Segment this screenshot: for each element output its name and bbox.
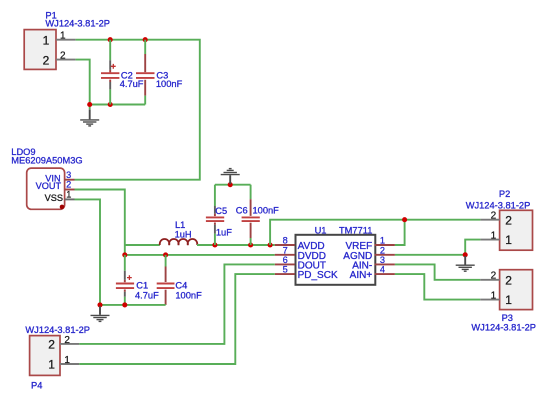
wire DVDD rail xyxy=(125,254,275,256)
svg-text:2: 2 xyxy=(505,213,512,227)
C4 bottom lead xyxy=(165,290,167,305)
C5 plate bottom xyxy=(206,220,224,222)
svg-text:WJ124-3.81-2P: WJ124-3.81-2P xyxy=(471,322,536,332)
U1 pin 8 stub (AVDD) xyxy=(275,244,295,246)
junction dot AVDD riser xyxy=(268,242,273,247)
wire gnd link horizontal xyxy=(215,184,251,186)
wire AVDD riser to P2 rail xyxy=(270,220,480,245)
U1 body xyxy=(296,235,376,285)
svg-text:2: 2 xyxy=(380,245,385,255)
U1 pin 7 stub (DVDD) xyxy=(275,254,295,256)
C2 plus sign xyxy=(111,64,116,69)
svg-text:100nF: 100nF xyxy=(175,290,202,300)
P4 body xyxy=(30,336,60,376)
C6 bottom lead xyxy=(250,223,252,238)
ground G1 under P1 branch xyxy=(80,109,99,126)
wire VOUT down to DVDD rail xyxy=(75,190,125,255)
C3 plate top xyxy=(136,72,155,74)
junction dot top of C2 xyxy=(108,37,113,42)
ground G3 under C1 rail xyxy=(91,306,110,321)
svg-text:1: 1 xyxy=(380,236,385,246)
wire ground rail C1/C4 xyxy=(100,304,166,306)
svg-text:L1: L1 xyxy=(175,220,185,230)
LDO9 polarity dot xyxy=(60,205,65,210)
wire VREF up to P2 rail xyxy=(395,220,405,245)
C2 top wire xyxy=(109,40,111,61)
C6 plate top xyxy=(242,216,260,218)
svg-text:WJ124-3.81-2P: WJ124-3.81-2P xyxy=(466,200,531,210)
svg-text:100nF: 100nF xyxy=(253,206,280,216)
U1 pin 2 stub (AGND) xyxy=(375,254,395,256)
connector P3 xyxy=(471,270,536,333)
svg-text:1: 1 xyxy=(60,31,66,42)
svg-text:VOUT: VOUT xyxy=(36,181,62,191)
P2 pin 2 stub xyxy=(480,219,499,221)
svg-text:P2: P2 xyxy=(499,189,510,199)
junction dot C1 bottom xyxy=(122,302,127,307)
C2 plate bottom xyxy=(101,77,119,79)
LDO9 body xyxy=(27,168,65,209)
connector P2 xyxy=(466,189,533,250)
svg-text:WJ124-3.81-2P: WJ124-3.81-2P xyxy=(25,325,90,335)
P3 pin 1 stub xyxy=(480,299,499,301)
LDO9 pin 3 stub (VIN) xyxy=(65,179,75,181)
P1 pin 1 stub xyxy=(56,39,76,41)
C1 bottom lead xyxy=(124,290,126,292)
wire PD_SCK to P4.1 xyxy=(79,274,275,364)
wire P2.1 down to AGND xyxy=(465,240,480,255)
P4 pin 1 stub xyxy=(60,363,79,365)
svg-text:2: 2 xyxy=(491,211,497,222)
svg-text:1: 1 xyxy=(43,33,50,47)
svg-text:1: 1 xyxy=(48,358,55,372)
C5 bottom wire xyxy=(214,234,216,245)
wire AVDD rail right segment xyxy=(197,244,275,246)
junction dot gnd rail2 left xyxy=(97,302,102,307)
C2 bottom wire xyxy=(109,89,111,104)
junction dot C6 bottom xyxy=(248,242,253,247)
inductor L1 1uH xyxy=(160,220,198,245)
ground G2 (above rail, inverted) xyxy=(221,169,240,184)
C1 plate bottom xyxy=(116,287,134,289)
P1 pin 2 stub xyxy=(56,59,76,61)
junction dot top of C3 xyxy=(143,37,148,42)
regulator U LDO9 ME6209A50M3G xyxy=(11,147,82,210)
svg-text:2: 2 xyxy=(60,51,66,62)
wire DOUT to P4.2 xyxy=(79,264,275,344)
capacitor C6 (100nF) xyxy=(236,199,279,245)
C4 top wire xyxy=(165,255,167,267)
C3 bottom lead xyxy=(144,80,146,96)
svg-text:2: 2 xyxy=(505,273,512,287)
capacitor C1 (polarized 4.7uF) xyxy=(116,255,159,305)
svg-text:2: 2 xyxy=(43,53,50,67)
C3 top wire xyxy=(144,40,146,54)
C5 top lead xyxy=(214,206,216,214)
C6 top lead xyxy=(250,199,252,216)
svg-text:1: 1 xyxy=(505,233,512,247)
C5 bottom lead xyxy=(214,223,216,225)
junction dot bottom of C2 xyxy=(108,102,113,107)
C4 plate top xyxy=(157,283,175,285)
svg-text:C5: C5 xyxy=(215,206,227,216)
U1 pin 4 stub (AIN+) xyxy=(375,273,395,275)
P3 pin 2 stub xyxy=(480,279,499,281)
junction dot C5 bottom xyxy=(212,242,217,247)
svg-text:PD_SCK: PD_SCK xyxy=(298,270,338,281)
junction dot gnd rail left xyxy=(87,102,92,107)
C3 plate bottom xyxy=(136,77,155,79)
P1 body xyxy=(24,30,56,70)
C2 top lead xyxy=(109,60,111,70)
C4 plate bottom xyxy=(157,287,175,289)
wire P1.2 down xyxy=(76,60,90,110)
C1 plate top xyxy=(116,283,134,285)
svg-text:2: 2 xyxy=(66,180,71,190)
ground G4 at AGND xyxy=(456,256,475,271)
svg-text:100nF: 100nF xyxy=(156,79,183,89)
connector P4 xyxy=(25,325,90,390)
wire C5 riser xyxy=(214,185,216,206)
svg-text:C4: C4 xyxy=(175,280,187,290)
wire C6 riser xyxy=(250,185,252,200)
L1 coil xyxy=(160,239,198,245)
svg-text:2: 2 xyxy=(491,271,497,282)
C3 top lead xyxy=(144,54,146,72)
LDO9 pin 2 stub (VOUT) xyxy=(65,189,75,191)
P2 body xyxy=(500,210,533,250)
svg-text:1: 1 xyxy=(491,231,497,242)
C1 top lead xyxy=(124,271,126,280)
C4 top lead xyxy=(165,267,167,283)
C5 plate top xyxy=(206,216,224,218)
svg-text:P4: P4 xyxy=(31,381,42,391)
P2 pin 1 stub xyxy=(480,239,499,241)
U1 pin 6 stub (DOUT) xyxy=(275,263,295,265)
svg-text:4.7uF: 4.7uF xyxy=(135,290,159,300)
P4 pin 2 stub xyxy=(60,343,79,345)
svg-text:3: 3 xyxy=(66,170,71,180)
svg-text:7: 7 xyxy=(283,245,288,255)
wire AIN- to P3.2 xyxy=(395,264,480,279)
C6 bottom wire xyxy=(250,238,252,245)
junction dot gnd link xyxy=(228,182,233,187)
C3 bottom wire xyxy=(144,96,146,105)
svg-text:2: 2 xyxy=(48,338,55,352)
capacitor C4 (100nF) xyxy=(157,255,202,305)
LDO9 pin 1 stub (VSS) xyxy=(65,198,75,200)
U1 pin 3 stub (AIN-) xyxy=(375,263,395,265)
svg-text:1: 1 xyxy=(491,291,497,302)
svg-text:ME6209A50M3G: ME6209A50M3G xyxy=(11,156,82,166)
wire AVDD rail left segment xyxy=(125,244,160,246)
C1 top wire xyxy=(124,255,126,271)
C1 bottom wire xyxy=(124,297,126,305)
U1 pin 1 stub (VREF) xyxy=(375,244,395,246)
wire ground rail C2/C3 xyxy=(90,104,146,106)
wire P1.1 to VIN (top rail + right vertical) xyxy=(75,40,200,180)
svg-text:5: 5 xyxy=(283,265,288,275)
svg-text:1: 1 xyxy=(66,190,71,200)
wire AIN+ to P3.1 xyxy=(395,274,480,300)
P3 body xyxy=(500,270,533,310)
svg-text:1: 1 xyxy=(64,355,70,366)
svg-text:1uF: 1uF xyxy=(216,227,232,237)
svg-text:C6: C6 xyxy=(236,206,248,216)
svg-text:WJ124-3.81-2P: WJ124-3.81-2P xyxy=(45,18,110,28)
wire VSS down to ground rail xyxy=(75,199,101,305)
capacitor C2 (polarized 4.7uF) xyxy=(101,40,144,105)
svg-text:8: 8 xyxy=(283,236,288,246)
junction dot VREF rail xyxy=(402,217,407,222)
C2 bottom lead xyxy=(109,80,111,82)
svg-text:1: 1 xyxy=(505,293,512,307)
wire AGND to ground xyxy=(395,254,465,256)
svg-text:6: 6 xyxy=(283,255,288,265)
capacitor C5 (1uF) xyxy=(206,206,232,245)
junction dot C1 top xyxy=(122,252,127,257)
junction dot C4 top xyxy=(163,252,168,257)
svg-text:2: 2 xyxy=(64,335,70,346)
C1 plus sign xyxy=(127,275,132,280)
C2 plate top xyxy=(101,72,119,74)
svg-text:4: 4 xyxy=(380,265,385,275)
svg-text:1uH: 1uH xyxy=(175,229,192,239)
svg-text:4.7uF: 4.7uF xyxy=(120,79,144,89)
svg-text:VSS: VSS xyxy=(45,193,63,203)
IC U1 TM7711 xyxy=(275,226,395,285)
U1 pin 5 stub (PD_SCK) xyxy=(275,273,295,275)
svg-text:3: 3 xyxy=(380,255,385,265)
capacitor C3 (100nF) xyxy=(136,40,183,105)
svg-text:C1: C1 xyxy=(136,280,148,290)
connector P1 xyxy=(24,10,110,69)
junction dot AGND xyxy=(463,252,468,257)
svg-text:AIN+: AIN+ xyxy=(350,270,373,281)
C6 plate bottom xyxy=(242,220,260,222)
